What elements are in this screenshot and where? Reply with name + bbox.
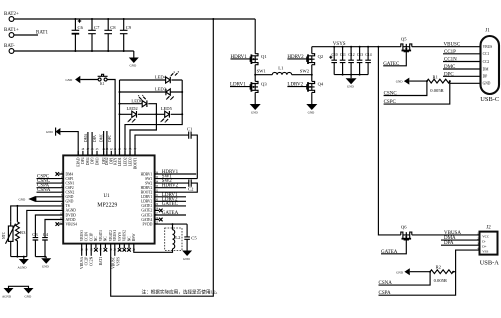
junction dots VSYS [333,46,379,48]
wire AVDD to C4 [45,220,59,238]
capacitor C3 [32,232,38,257]
wire VBUSC to J1 [412,46,481,48]
svg-text:CC1N: CC1N [85,232,89,242]
svg-text:LED2: LED2 [127,106,139,111]
wire GATEA gate [381,240,406,254]
capacitor C14 [365,47,371,75]
svg-text:CSNA: CSNA [379,281,393,286]
svg-text:GND: GND [347,85,354,89]
thermistor NTC [2,222,16,257]
svg-text:CSNC: CSNC [384,92,398,97]
wire rail to Q1 drain [254,19,256,54]
svg-text:LED2: LED2 [123,157,127,166]
wire VSYS to Q2 drain [311,47,313,54]
svg-text:R1: R1 [433,74,439,79]
wire LED row4 [120,113,183,115]
svg-text:VSS: VSS [482,249,488,253]
svg-text:C12: C12 [348,53,354,57]
svg-text:SW2: SW2 [300,69,310,74]
wire LED row1 [120,79,183,81]
svg-text:BAT1: BAT1 [99,257,103,266]
svg-text:PVDD: PVDD [143,222,153,226]
svg-text:GND: GND [396,80,403,84]
wire DMA to J2 [441,239,480,241]
node DMA stub [84,132,88,155]
ground GND arrow near R1 [396,78,427,85]
terminal BAT1+ [4,28,19,37]
node SW1 [254,69,266,76]
svg-text:C4: C4 [43,232,49,237]
resistor R3 [15,222,26,257]
svg-text:DMA: DMA [84,133,88,142]
svg-text:KEY: KEY [113,157,117,165]
svg-text:R2: R2 [436,265,442,270]
svg-text:VBUS2: VBUS2 [123,230,127,242]
svg-text:GND: GND [25,294,32,298]
inductor L2 optional [134,224,182,252]
svg-text:GATEA: GATEA [381,250,398,255]
svg-text:DM: DM [483,67,490,71]
svg-text:CC1: CC1 [483,52,490,56]
svg-text:L1: L1 [278,65,284,70]
wire TS net [11,206,59,222]
svg-text:SW1: SW1 [257,69,267,74]
wire C3 C4 GND bus [35,256,46,258]
svg-text:GND: GND [396,270,403,274]
no-connect X left pin12 [56,222,60,226]
pushbutton K1 [98,74,108,86]
terminal BAT2+ [4,12,19,21]
wire U1 top pin stubs [78,151,135,156]
wire SW2 row [159,182,189,184]
wire J2 VSS to R2 [453,250,479,272]
svg-text:CSN1: CSN1 [66,181,75,185]
svg-text:GATE3: GATE3 [141,213,152,217]
transistor Q2 [307,54,324,65]
wire CC1P to J1 [443,53,481,55]
svg-text:HDRV1: HDRV1 [141,172,153,176]
wire LDRV1 gate [230,86,250,88]
svg-text:DPA: DPA [93,135,97,142]
LED LED5 [160,106,172,123]
wire J1 GND pin to R1 [450,81,481,83]
wire LED loop 2 [130,114,156,155]
ground AGND tie symbol [2,288,14,298]
svg-text:USB-C: USB-C [480,96,499,103]
no-connect X right pin26 [159,218,163,222]
transistor Q1 [250,54,267,65]
svg-text:C6: C6 [78,25,84,30]
pin labels U1 top side [77,157,138,169]
wire GATEA stub [159,214,186,216]
wire cap bank bottom bus [334,74,368,76]
transistor Q3 [250,75,267,93]
wire LED row2 [120,91,183,93]
svg-text:DPC: DPC [444,72,454,77]
svg-text:DP3: DP3 [90,157,94,164]
svg-text:VBUS4: VBUS4 [66,222,78,226]
node SW2 [300,69,313,76]
svg-text:C1: C1 [187,126,193,131]
wire AGND-GND tie [9,286,29,288]
svg-text:LED1: LED1 [118,157,122,166]
node DPA stub [92,132,97,155]
wire K1 left [80,79,98,81]
ground GND below Q4 [306,92,317,114]
svg-text:DM4: DM4 [66,172,74,176]
pin numbers U1 right [155,171,158,224]
svg-text:注：根据实际应用，选择是否使用L2。: 注：根据实际应用，选择是否使用L2。 [142,288,221,295]
wire CSPC sense [384,83,450,104]
svg-text:C10: C10 [332,53,338,57]
svg-text:DP: DP [483,75,488,79]
wire DVDD to C3 [35,215,59,238]
capacitor C5 [184,224,197,250]
wire VBUS1 big loop [111,19,214,296]
transistor Q5 [401,36,412,51]
svg-text:C13: C13 [357,53,363,57]
no-connect X left pin1 [56,172,60,176]
ground GND arrow near R2 [396,268,430,275]
svg-text:CC1N: CC1N [444,58,457,63]
svg-text:CSN2: CSN2 [66,191,75,195]
svg-text:GATE1: GATE1 [141,204,152,208]
svg-text:VBUSC: VBUSC [444,43,461,48]
svg-text:DP4: DP4 [81,157,85,164]
svg-text:NC: NC [104,236,108,242]
svg-text:GATEC: GATEC [162,202,179,207]
svg-text:C11: C11 [340,53,346,57]
svg-text:LDRV1: LDRV1 [141,195,152,199]
svg-text:0.005R: 0.005R [430,88,444,93]
resistor R1 0.005R [427,74,450,93]
svg-text:GND: GND [19,197,26,201]
transistor Q6 [401,225,412,240]
svg-text:BSW: BSW [132,233,136,241]
inductor L1 [255,65,312,74]
svg-text:Q3: Q3 [261,82,267,87]
wire HDRV2 gate [287,58,306,60]
connector J2 USB-A [477,226,499,267]
svg-text:GATE2: GATE2 [141,209,152,213]
junction R1 left [426,80,428,82]
svg-text:BAT1+: BAT1+ [4,28,19,33]
svg-text:NTC: NTC [2,231,6,239]
svg-text:CSNA: CSNA [37,188,51,193]
wire VSYS pin stub [114,248,116,256]
svg-text:VCC: VCC [482,235,490,239]
svg-text:C5: C5 [191,235,197,240]
svg-text:C14: C14 [365,53,371,57]
wire Q2 source to SW2 [311,65,313,75]
wire PVDD to C5 [159,223,187,225]
svg-text:DM2: DM2 [105,157,109,165]
capacitor C6 [72,19,84,51]
wire SW1 to C1 [159,178,197,180]
svg-text:CSP1: CSP1 [66,177,74,181]
wire GATEC gate [383,52,406,66]
wire VSYS feed to Q6 [378,47,400,235]
svg-text:VBUSA: VBUSA [80,256,84,269]
svg-text:K1: K1 [100,82,105,86]
svg-text:LED3: LED3 [155,87,167,92]
pin labels U1 left side [66,172,78,226]
ground GND arrow at K1 [66,76,81,83]
wire DPC to J1 [443,75,481,77]
LED LED3 [155,87,174,101]
svg-text:LDRV2: LDRV2 [141,200,152,204]
svg-text:C9: C9 [126,25,132,30]
capacitor C11 [340,47,346,75]
svg-text:CSPC: CSPC [384,100,397,105]
wire VBUSA to J2 [412,234,480,236]
ground GND below Q3 [250,92,261,114]
svg-text:HDRV2: HDRV2 [141,186,153,190]
junction dots top rail [74,18,214,20]
transistor Q4 [307,75,324,93]
svg-text:LED5: LED5 [161,106,173,111]
svg-text:U1: U1 [104,194,111,199]
svg-text:GND: GND [183,257,190,261]
junction R2 right [452,271,454,273]
svg-text:AGND: AGND [18,265,28,269]
svg-text:GND: GND [66,78,73,82]
LED LED6 [131,95,147,107]
svg-text:Q4: Q4 [318,82,324,87]
node DMC stub [100,131,104,155]
svg-text:C2: C2 [188,187,194,192]
svg-text:TS: TS [66,204,70,208]
svg-text:BAT2+: BAT2+ [4,12,19,17]
wire BAT2+ top rail [14,18,255,20]
svg-text:LED3: LED3 [128,157,132,166]
svg-text:L2: L2 [175,235,181,240]
svg-text:GATEA: GATEA [162,211,179,216]
svg-text:C8: C8 [110,25,116,30]
svg-text:GND: GND [308,111,315,115]
resistor R2 0.005R [430,265,453,283]
svg-text:CC2P: CC2P [85,257,89,266]
wire CSNA to CSN2 [37,191,60,193]
ground GND battery rail [129,51,139,68]
svg-text:VBUS: VBUS [483,45,493,49]
wire GND pins bracket [36,197,59,202]
ground GND arrow at U1 GND pins [19,196,36,202]
svg-text:SW2: SW2 [145,181,152,185]
svg-text:J1: J1 [485,29,490,34]
svg-text:GND: GND [251,111,258,115]
svg-text:GND: GND [46,130,53,134]
svg-text:Q1: Q1 [261,54,267,59]
svg-text:Q2: Q2 [318,54,324,59]
ground GND cap bank [346,75,357,89]
wire VSYS net [312,46,401,48]
pin numbers U1 left [60,171,63,224]
junction TS-R3 [16,205,18,207]
svg-text:VBAT1: VBAT1 [99,230,103,241]
wire HDRV1 stub [159,173,196,175]
op-amp U1 MP2229 charger IC body [63,155,154,243]
wire DPA to J2 [441,244,480,246]
svg-text:GATE4: GATE4 [141,218,152,222]
junction R1 right [449,80,451,82]
svg-text:BAT-: BAT- [4,44,15,49]
svg-text:EPAD: EPAD [77,157,81,166]
svg-text:Q5: Q5 [401,36,407,41]
ground GND tie symbol [24,288,34,298]
svg-text:GND: GND [66,200,74,204]
wire EPAD [60,132,78,156]
svg-text:NC: NC [127,236,131,242]
wire BAT- rail [14,50,134,52]
node DPC stub [107,131,112,155]
wire LED row3 [120,104,157,115]
svg-text:0.005R: 0.005R [434,278,448,283]
wire CSNA sense [379,272,431,285]
wire AGND pin down [27,210,59,256]
svg-text:DMC: DMC [444,65,456,70]
wire AGND bus [11,256,27,258]
svg-text:J2: J2 [486,226,491,231]
svg-text:LED4: LED4 [155,75,167,80]
svg-text:C7: C7 [94,25,100,30]
svg-text:BAT1: BAT1 [36,31,48,36]
no-connect X bottom pins [94,248,131,252]
svg-text:GND: GND [483,82,491,86]
svg-text:CC1P: CC1P [444,50,456,55]
wire U1 left pin stubs [59,174,63,224]
wire VBUSA pin stub [81,248,83,256]
svg-text:R3: R3 [20,230,26,235]
capacitor C9 [120,19,132,51]
svg-text:CC2N: CC2N [90,256,94,266]
capacitor C2 [159,180,197,193]
wire U1 right pin stubs [155,174,159,224]
svg-text:CSP2: CSP2 [66,186,74,190]
junction dots bottom rail [74,50,124,52]
capacitor C7 [88,19,100,51]
wire Q1 source to SW1 [254,65,256,75]
junction row3-row4 [155,113,157,115]
wire CSPC to CSP1 [37,178,60,180]
no-connect X right pin28 [159,209,163,213]
capacitor C1 [135,126,197,178]
wire LED right bus [125,80,182,155]
wire CC2N pin stub [90,248,92,256]
wire CSPA sense [379,272,456,296]
wire LDRV2 stub [159,200,186,202]
connector J1 USB-C [480,29,499,103]
pin numbers U1 top [82,148,137,151]
svg-text:DMC: DMC [100,133,104,142]
svg-text:VBUS1: VBUS1 [113,230,117,242]
svg-text:DPA: DPA [444,241,454,246]
svg-text:VSYS: VSYS [118,232,122,241]
svg-text:BOOT2: BOOT2 [141,191,153,195]
wire HDRV1 gate [231,58,251,60]
terminal BAT- [4,44,15,53]
ground GND below C4 [41,257,51,269]
svg-text:CC1P: CC1P [90,233,94,242]
svg-text:BOOT1: BOOT1 [133,157,137,169]
svg-text:Q6: Q6 [401,225,407,230]
svg-text:AGND: AGND [2,294,12,298]
svg-text:GATEC: GATEC [383,62,400,67]
pin labels U1 right side [141,172,153,226]
svg-text:DVDD: DVDD [66,213,77,217]
svg-text:MP2229: MP2229 [97,203,117,209]
wire CSNC sense [384,81,427,95]
svg-text:AGND: AGND [66,209,77,213]
svg-text:D+: D+ [482,244,486,248]
wire HDRV2 stub [159,187,186,189]
svg-text:GND: GND [130,64,137,68]
wire CSNC to CSN1 [37,182,60,184]
svg-text:C3: C3 [32,232,38,237]
wire LDRV2 gate [287,86,306,88]
junction R2 left [429,271,431,273]
ground GND below C5 [182,251,192,261]
svg-text:DPC: DPC [108,134,112,142]
capacitor C13 [357,47,363,75]
svg-text:DM3: DM3 [95,157,99,165]
svg-text:VBUS3: VBUS3 [80,230,84,242]
wire CC1N to J1 [443,61,481,63]
wire BAT1 pin stub [100,248,102,256]
capacitor C8 [104,19,116,51]
svg-text:SW1: SW1 [145,177,152,181]
junction PVDD-L2 [172,223,174,225]
wire K1 to KEY pin [107,80,115,156]
wire LED left bus [119,80,121,155]
capacitor C10 [329,47,338,75]
LED LED2 [127,106,139,123]
capacitor C12 [348,47,354,75]
LED LED4 [155,71,179,83]
wire BAT1 stub [14,34,38,36]
svg-text:VBUSC: VBUSC [111,256,115,269]
wire DMC to J1 [443,68,481,70]
wire CC2P pin stub [85,248,87,256]
svg-text:GND: GND [42,265,49,269]
wire GATEC stub [159,205,186,207]
svg-text:D-: D- [482,240,486,244]
svg-text:USB-A: USB-A [480,260,500,267]
wire U1 bottom pin stubs [82,244,134,248]
svg-text:AVDD: AVDD [66,218,76,222]
pin numbers U1 bottom [80,249,135,252]
svg-text:NC: NC [94,236,98,242]
wire CSPA to CSP2 [37,187,60,189]
svg-text:VSYS: VSYS [116,257,120,266]
ground AGND symbol [18,257,29,270]
capacitor C4 [42,232,49,257]
ground GND arrow at EPAD [46,128,60,136]
svg-text:HDRV2: HDRV2 [162,184,179,189]
wire LDRV1 stub [159,196,186,198]
svg-text:CC2: CC2 [483,60,490,64]
svg-text:CSPA: CSPA [379,291,391,296]
pin labels U1 bottom side [80,230,136,242]
svg-text:GND: GND [66,195,74,199]
